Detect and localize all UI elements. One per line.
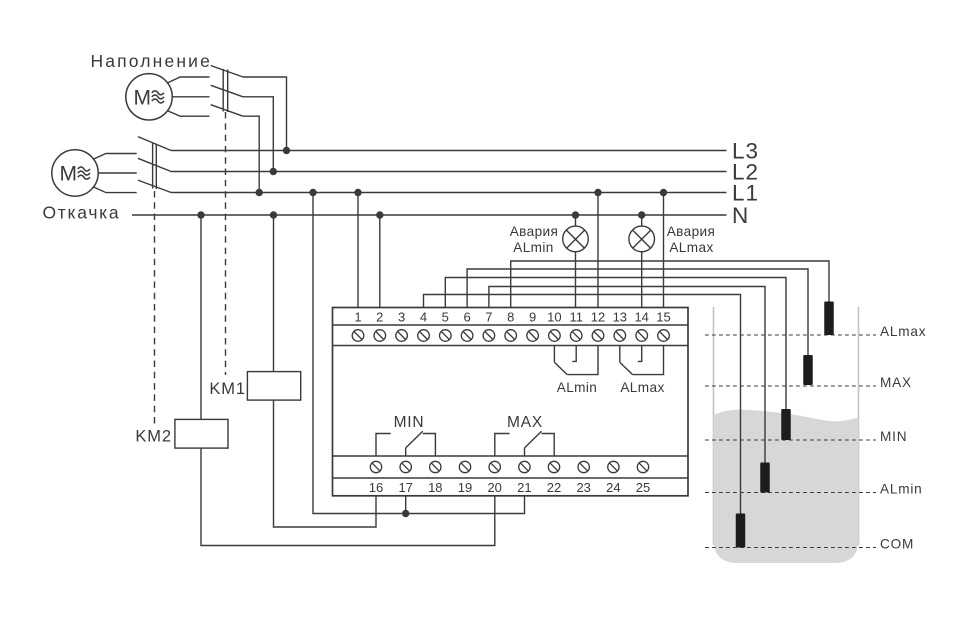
wire M1 phase B to L2 xyxy=(243,97,273,172)
contact ALmin (terminals 10-12) xyxy=(553,346,555,363)
svg-text:9: 9 xyxy=(529,310,536,325)
junction dot N/HL2 xyxy=(638,211,645,218)
svg-text:3: 3 xyxy=(398,310,405,325)
motor M1 circle (Наполнение) xyxy=(126,74,172,120)
svg-text:Откачка: Откачка xyxy=(43,202,121,222)
svg-text:24: 24 xyxy=(606,480,620,495)
svg-text:N: N xyxy=(732,203,749,228)
screw terminals 1-15 xyxy=(352,330,364,342)
wire M1 phase C to L1 xyxy=(243,116,259,192)
wire N rail xyxy=(132,214,727,216)
wire L1 to terminal 12 xyxy=(597,193,599,308)
electrode MAX xyxy=(803,355,813,385)
motor M1 triple-tilde xyxy=(152,91,164,95)
junction dot N/T2 xyxy=(376,211,383,218)
svg-text:Наполнение: Наполнение xyxy=(91,51,212,71)
wire N to terminal 2 xyxy=(379,215,381,308)
level line MIN xyxy=(705,439,876,441)
wire N to lamp HL1 xyxy=(575,215,577,227)
svg-text:ALmin: ALmin xyxy=(880,481,923,496)
junction dot L3/M1 xyxy=(283,147,290,154)
svg-text:KM2: KM2 xyxy=(135,428,172,446)
svg-text:MIN: MIN xyxy=(394,414,425,431)
svg-text:12: 12 xyxy=(591,310,605,325)
wire N to lamp HL2 xyxy=(641,215,643,227)
svg-text:ALmax: ALmax xyxy=(669,240,713,255)
svg-text:Авария: Авария xyxy=(667,224,716,239)
contact KM1 blade phase C xyxy=(211,105,243,117)
svg-text:ALmin: ALmin xyxy=(557,380,598,395)
wire terminal 5 to electrode MIN xyxy=(445,278,786,410)
contact KM2 blade phase C xyxy=(138,180,171,192)
wire M1 lead bot xyxy=(167,110,210,116)
level line ALmax xyxy=(705,334,876,336)
svg-text:10: 10 xyxy=(547,310,561,325)
wire L2 rail xyxy=(171,171,726,173)
screw terminals 16-25 xyxy=(370,461,381,472)
relay bottom strip line 1 xyxy=(333,455,689,457)
wire terminal 6 to electrode MAX xyxy=(467,269,808,355)
wire M2 lead top xyxy=(93,154,137,160)
wire coil KM1 to terminal 16 xyxy=(274,400,377,527)
wire M1 lead top xyxy=(167,77,210,83)
contact MIN (terminals 16-18) xyxy=(376,434,391,457)
wire M1 phase A to L3 xyxy=(243,77,287,151)
contact KM2 blade phase B xyxy=(138,158,171,171)
wire terminal 4 to electrode COM xyxy=(424,295,741,514)
junction dot L1/M1 xyxy=(256,189,263,196)
contact MAX (terminals 20-22) xyxy=(495,434,510,457)
svg-text:19: 19 xyxy=(458,480,472,495)
wire M2 lead bot xyxy=(93,187,137,193)
junction dot N/KM1 xyxy=(270,211,277,218)
svg-text:4: 4 xyxy=(420,310,427,325)
junction dot N/KM2 xyxy=(197,211,204,218)
tank right wall xyxy=(858,307,860,545)
svg-text:18: 18 xyxy=(428,480,442,495)
relay module outline xyxy=(333,308,689,496)
svg-text:6: 6 xyxy=(463,310,470,325)
svg-text:15: 15 xyxy=(656,310,670,325)
junction dot terminal 17 xyxy=(402,510,409,517)
svg-text:M: M xyxy=(60,163,78,186)
junction dot L2/M1 xyxy=(270,168,277,175)
junction dot L1/T1 xyxy=(354,189,361,196)
wire L1 to terminal 15 xyxy=(663,193,665,308)
wire L1 rail xyxy=(171,192,726,194)
contact KM1 blade phase A xyxy=(211,66,243,78)
electrode ALmax xyxy=(824,302,834,336)
svg-text:ALmin: ALmin xyxy=(513,240,554,255)
svg-text:13: 13 xyxy=(613,310,627,325)
svg-text:25: 25 xyxy=(636,480,650,495)
wire lamp HL2 to terminal 14 xyxy=(641,251,643,307)
wire L1 to terminals 17 and 21 xyxy=(313,193,525,514)
svg-text:M: M xyxy=(134,87,152,110)
svg-text:MIN: MIN xyxy=(880,429,907,444)
junction dot L1/T15 xyxy=(660,189,667,196)
relay top strip line 1 xyxy=(333,324,689,326)
wire M1 lead mid xyxy=(172,96,209,98)
contact ALmax (terminals 13-15) xyxy=(619,346,621,363)
svg-text:17: 17 xyxy=(398,480,412,495)
wire terminal 8 to electrode ALmax xyxy=(511,261,829,308)
motor M2 triple-tilde xyxy=(78,167,90,171)
motor M2 circle (Откачка) xyxy=(52,150,98,196)
electrode MIN xyxy=(781,409,791,440)
contact KM2 linkage bars xyxy=(152,143,154,189)
wire L1 to terminal 1 xyxy=(357,193,359,308)
tank water fill xyxy=(714,410,859,563)
svg-text:Авария: Авария xyxy=(510,224,559,239)
junction dot L1/T12 xyxy=(594,189,601,196)
junction dot L1 drop xyxy=(309,189,316,196)
svg-text:COM: COM xyxy=(880,536,914,551)
svg-text:23: 23 xyxy=(576,480,590,495)
contact KM1 linkage bars xyxy=(222,69,224,112)
contact KM2 blade phase A xyxy=(138,137,171,151)
relay bottom strip line 2 xyxy=(333,477,689,479)
svg-text:7: 7 xyxy=(485,310,492,325)
wire coil KM2 to terminal 20 xyxy=(201,448,495,545)
svg-text:5: 5 xyxy=(442,310,449,325)
lamp HL1 (Авария ALmin) xyxy=(563,226,589,252)
wire M2 lead mid xyxy=(98,172,137,174)
svg-text:ALmax: ALmax xyxy=(620,380,664,395)
electrode ALmin xyxy=(760,463,770,493)
svg-text:1: 1 xyxy=(354,310,361,325)
wire terminal 17 stub xyxy=(405,496,407,514)
contact KM1 blade phase B xyxy=(211,85,243,97)
level line COM xyxy=(705,547,876,549)
wire L3 rail xyxy=(171,150,726,152)
level line ALmin xyxy=(705,492,876,494)
junction dot N/HL1 xyxy=(572,211,579,218)
level line MAX xyxy=(705,385,876,387)
coil KM2 xyxy=(175,419,228,448)
svg-text:MAX: MAX xyxy=(880,375,912,390)
svg-text:2: 2 xyxy=(376,310,383,325)
wire N to coil KM2 xyxy=(200,215,202,419)
svg-text:8: 8 xyxy=(507,310,514,325)
svg-text:22: 22 xyxy=(547,480,561,495)
lamp HL2 (Авария ALmax) xyxy=(629,226,655,252)
coil KM1 xyxy=(247,372,300,401)
svg-text:L1: L1 xyxy=(732,181,759,206)
electrode COM xyxy=(736,514,746,548)
svg-text:MAX: MAX xyxy=(507,414,543,431)
svg-text:KM1: KM1 xyxy=(209,380,246,398)
svg-text:ALmax: ALmax xyxy=(880,324,926,339)
linkage dashed KM2 xyxy=(154,191,156,424)
svg-text:11: 11 xyxy=(569,310,583,325)
wire lamp HL1 to terminal 11 xyxy=(575,251,577,307)
svg-text:21: 21 xyxy=(517,480,531,495)
relay top strip line 2 xyxy=(333,345,689,347)
tank left wall xyxy=(713,307,715,545)
svg-text:20: 20 xyxy=(487,480,501,495)
wire N to coil KM1 xyxy=(273,215,275,372)
wire terminal 7 to electrode ALmin xyxy=(489,287,765,463)
linkage dashed KM1 xyxy=(225,112,227,375)
svg-text:16: 16 xyxy=(369,480,383,495)
svg-text:14: 14 xyxy=(634,310,648,325)
